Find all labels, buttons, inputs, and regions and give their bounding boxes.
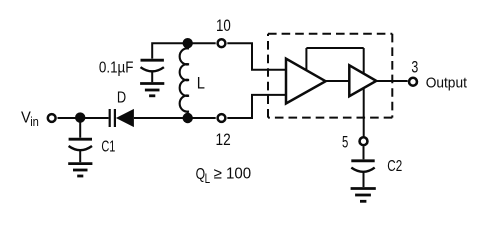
feedback block top wire xyxy=(306,48,363,71)
svg-text:L: L xyxy=(197,75,205,93)
svg-text:≥ 100: ≥ 100 xyxy=(214,166,252,183)
diode D xyxy=(110,109,134,127)
wire diode to inductor node xyxy=(134,117,216,119)
svg-text:D: D xyxy=(117,89,126,106)
svg-text:C1: C1 xyxy=(101,139,115,156)
inductor L xyxy=(180,43,189,118)
op-amp U1a xyxy=(286,59,326,104)
svg-text:10: 10 xyxy=(216,17,231,35)
ground (C1) xyxy=(68,164,92,176)
ground (C2) xyxy=(351,189,376,202)
ground (0.1uF) xyxy=(140,84,164,96)
svg-text:5: 5 xyxy=(342,134,348,152)
capacitor C2 xyxy=(351,146,374,187)
wire amp2 to output xyxy=(376,80,407,82)
terminal pin 12 xyxy=(218,114,226,122)
terminal pin 10 xyxy=(218,39,226,47)
svg-text:0.1µF: 0.1µF xyxy=(99,60,134,77)
wire amp1 to amp2 xyxy=(326,80,350,82)
node junction C1 xyxy=(75,112,85,122)
op-amp U1b xyxy=(349,65,376,96)
svg-text:C2: C2 xyxy=(387,158,402,175)
svg-text:3: 3 xyxy=(411,59,418,77)
capacitor C1 xyxy=(69,118,92,162)
node inductor top xyxy=(183,38,193,48)
terminal pin 5 xyxy=(360,137,368,145)
svg-text:12: 12 xyxy=(216,131,231,149)
wire pin 5 vertical (through amp2) xyxy=(363,48,365,137)
wire Vin to diode xyxy=(58,117,109,119)
wire top node to bypass cap xyxy=(152,43,188,58)
terminal output pin 3 xyxy=(409,78,417,86)
terminal Vin xyxy=(48,114,56,122)
svg-text:Output: Output xyxy=(426,74,468,91)
capacitor 0.1uF xyxy=(141,60,164,82)
svg-text:in: in xyxy=(30,114,39,129)
wire pin10 to amp upper input xyxy=(227,43,287,70)
node inductor bottom xyxy=(183,113,193,123)
dashed IC boundary box xyxy=(268,34,392,118)
wire pin12 to amp lower input xyxy=(227,95,287,118)
svg-text:L: L xyxy=(205,171,211,186)
wire top node to pin 10 xyxy=(188,42,216,44)
